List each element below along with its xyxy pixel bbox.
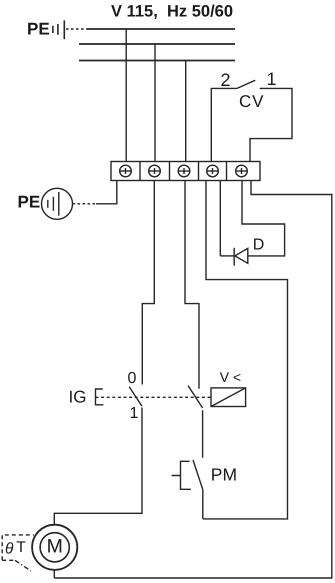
- wire (PE circle to terminal 1): [73, 203, 97, 205]
- PE electrode circle: [42, 188, 73, 219]
- bus line L1: [87, 28, 235, 30]
- svg-text:1: 1: [267, 69, 277, 89]
- wire (dashed link PE to bus L1): [66, 28, 87, 30]
- chain link to motor (dash-dot): [15, 560, 31, 571]
- svg-text:CV: CV: [239, 92, 264, 111]
- wire (terminal 4 to diode anode): [219, 181, 221, 256]
- mechanical link (dashed): [96, 396, 212, 398]
- svg-text:PE: PE: [27, 20, 50, 39]
- switch blade IG pole 2: [188, 386, 203, 409]
- terminal 3: [178, 165, 190, 177]
- wire (terminal 5 to right rail, motor return): [54, 181, 332, 579]
- box CV outline: [211, 88, 292, 161]
- switch blade IG pole 1: [129, 387, 142, 407]
- svg-text:1: 1: [130, 405, 139, 422]
- terminal 4: [207, 165, 219, 177]
- wire (terminal 3 down to IG pole 2): [185, 181, 199, 389]
- earth symbol (top PE): [53, 20, 64, 39]
- svg-text:IG: IG: [69, 388, 87, 407]
- svg-text:V <: V <: [220, 369, 241, 385]
- svg-text:0: 0: [128, 370, 137, 387]
- switch blade PM: [193, 460, 203, 489]
- wire (L3 down to terminal 3): [185, 61, 187, 162]
- voltage relay V< box: [211, 388, 246, 407]
- svg-text:M: M: [47, 535, 63, 557]
- bus line L3: [79, 60, 235, 62]
- wire (PM bottom): [202, 489, 204, 519]
- terminal strip: [111, 162, 260, 181]
- wire (L1 down to terminal 1): [125, 29, 127, 162]
- svg-text:V 115, Hz 50/60: V 115, Hz 50/60: [111, 3, 233, 21]
- svg-text:2: 2: [221, 70, 231, 90]
- IG manual actuator bracket: [96, 389, 104, 405]
- wire (diode cathode to terminal 5): [220, 255, 234, 257]
- wire (L2 down to terminal 2): [154, 44, 156, 162]
- wire (IG pole 2 down to PM): [202, 410, 204, 457]
- svg-text:T: T: [16, 539, 26, 556]
- bus line L2: [79, 43, 235, 45]
- wire (IG pole 1 to motor): [54, 408, 142, 525]
- svg-text:PM: PM: [211, 464, 237, 484]
- switch blade (CV input switch): [237, 80, 255, 88]
- motor M: [32, 525, 77, 570]
- thermal protector box (dashed): [2, 535, 34, 560]
- terminal 2: [149, 165, 161, 177]
- svg-text:D: D: [253, 237, 265, 254]
- wire (terminal 4 to PM return): [203, 181, 288, 519]
- svg-text:PE: PE: [18, 192, 41, 211]
- pressure switch PM actuator bracket: [172, 461, 191, 489]
- svg-text:θ: θ: [5, 541, 14, 558]
- terminal 5: [236, 165, 248, 177]
- wire (terminal 2 down to IG pole 1): [142, 181, 154, 385]
- wire (motor bottom to return rail): [53, 570, 55, 578]
- diode D: [234, 248, 248, 266]
- terminal 1: [120, 165, 132, 177]
